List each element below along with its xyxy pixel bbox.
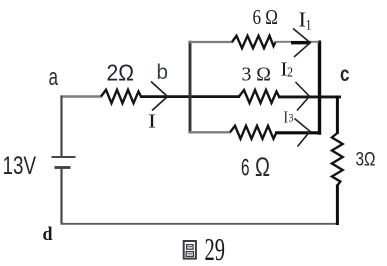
svg-text:3: 3 [289,111,294,125]
svg-text:Ω: Ω [255,152,270,182]
svg-text:13V: 13V [3,152,37,180]
svg-text:3Ω: 3Ω [356,150,376,171]
svg-text:I: I [148,112,156,133]
svg-text:29: 29 [205,231,226,266]
svg-text:1: 1 [306,18,312,34]
svg-text:b: b [157,60,169,84]
svg-text:6: 6 [241,155,250,182]
svg-text:6 Ω: 6 Ω [253,5,279,29]
svg-text:3 Ω: 3 Ω [242,64,272,86]
svg-text:2: 2 [287,66,293,81]
svg-text:d: d [43,224,53,245]
svg-text:a: a [49,64,59,91]
svg-text:c: c [340,63,350,86]
svg-text:2Ω: 2Ω [107,60,135,86]
